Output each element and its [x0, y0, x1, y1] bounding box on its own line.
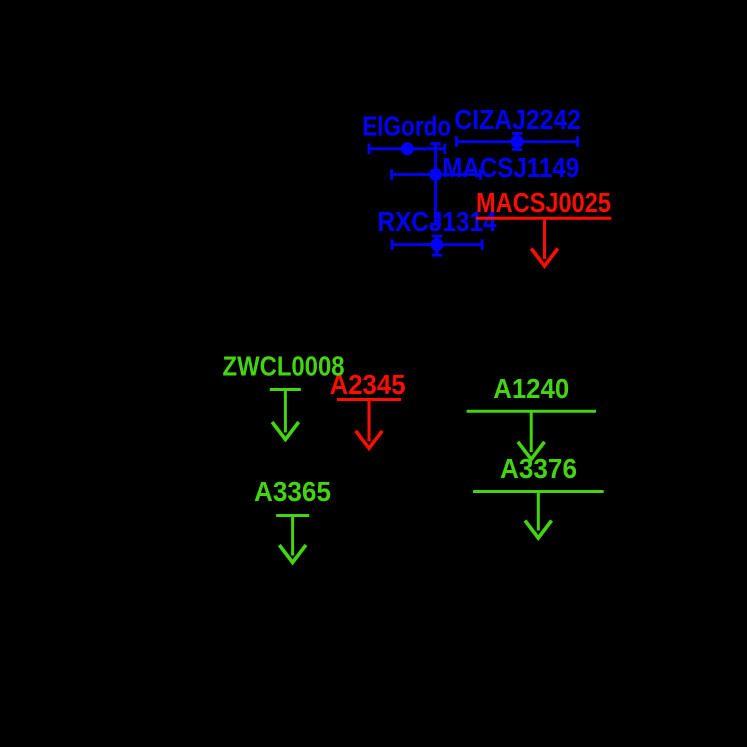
data point MACSJ1149: error bars [392, 144, 481, 225]
data point CIZAJ2242: error bars [457, 133, 578, 149]
svg-text:A3365: A3365 [254, 476, 331, 507]
data point ElGordo: error bars [369, 144, 445, 154]
svg-text:MACSJ1149: MACSJ1149 [442, 152, 579, 183]
svg-text:CIZAJ2242: CIZAJ2242 [454, 104, 581, 135]
data point RXCJ1314: marker [431, 238, 444, 251]
upper limit A1240: bar and arrow [467, 411, 596, 459]
svg-text:MACSJ0025: MACSJ0025 [476, 187, 611, 218]
svg-text:A3376: A3376 [500, 453, 577, 484]
data point ElGordo: marker [401, 142, 414, 155]
data point CIZAJ2242: marker [511, 135, 524, 148]
upper limit A3365: cap and arrow [276, 516, 309, 563]
data point MACSJ1149: marker [429, 168, 442, 181]
data point RXCJ1314: error bars [392, 236, 482, 255]
upper limit MACSJ0025: bar and arrow [476, 218, 611, 266]
svg-text:A1240: A1240 [493, 373, 569, 404]
upper limit A3376: bar and arrow [473, 492, 604, 539]
upper limit ZWCL0008: cap and arrow [270, 390, 301, 440]
svg-text:ElGordo: ElGordo [362, 111, 451, 142]
upper limit A2345: bar and arrow [337, 400, 401, 449]
svg-text:ZWCL0008: ZWCL0008 [223, 351, 345, 382]
